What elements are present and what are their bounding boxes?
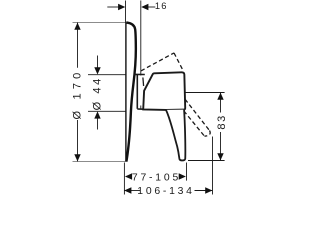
svg-text:83: 83 xyxy=(216,114,228,129)
svg-text:Ø 44: Ø 44 xyxy=(91,76,103,110)
svg-text:Ø 170: Ø 170 xyxy=(71,69,83,120)
svg-text:77-105: 77-105 xyxy=(132,173,181,184)
svg-text:16: 16 xyxy=(155,1,168,11)
svg-text:106-134: 106-134 xyxy=(137,186,194,197)
